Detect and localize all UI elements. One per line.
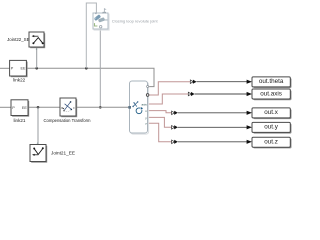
block Compensation Transform xyxy=(60,98,77,117)
svg-text:Joint21_EE: Joint21_EE xyxy=(51,151,75,156)
wire Compensation Transform to converter block left port xyxy=(76,106,128,108)
wire y signal xyxy=(178,126,247,128)
node junction joint bottom on link21 net xyxy=(99,106,102,109)
wire theta physical xyxy=(148,82,190,95)
block out.x xyxy=(252,108,292,119)
block Joint21_EE sensor xyxy=(30,141,47,163)
block out.y xyxy=(252,122,292,133)
block link22 xyxy=(10,60,28,77)
converter arrow z xyxy=(172,140,178,144)
wire left edge to link22 xyxy=(0,67,10,69)
wire revolute joint bottom drop xyxy=(99,29,101,107)
wire axis physical xyxy=(148,94,188,104)
block rotation converter U1 xyxy=(128,81,149,134)
node junction joint loop xyxy=(85,67,88,70)
block out.z xyxy=(252,137,292,148)
ground anchor above joint xyxy=(102,8,106,13)
svg-text:link22: link22 xyxy=(13,78,25,83)
wire x physical xyxy=(148,111,172,113)
wire drop to Joint21_EE xyxy=(37,107,39,144)
svg-text:out.x: out.x xyxy=(264,109,279,116)
arrowhead into out.axis xyxy=(247,92,252,96)
wire revolute joint top loop xyxy=(86,3,96,68)
converter arrow axis xyxy=(188,92,194,96)
arrowhead into out.y xyxy=(247,125,252,129)
svg-text:Joint22_SE: Joint22_SE xyxy=(7,37,30,42)
svg-text:P: P xyxy=(11,67,14,71)
converter arrow theta xyxy=(190,80,196,84)
wire sensor Joint22_SE drop xyxy=(36,47,38,68)
node junction sensor drop xyxy=(35,67,38,70)
converter arrow y xyxy=(172,125,178,129)
wire axis signal xyxy=(195,93,247,95)
svg-text:F: F xyxy=(73,106,75,110)
svg-text:Compensation Transform: Compensation Transform xyxy=(43,118,91,123)
node junction Joint21_EE drop xyxy=(37,106,40,109)
svg-text:link21: link21 xyxy=(13,118,25,123)
wire x signal xyxy=(178,112,247,114)
wire left edge to link21 xyxy=(0,106,11,108)
converter arrow x xyxy=(172,111,178,115)
svg-text:axis: axis xyxy=(141,102,147,106)
arrowhead into out.z xyxy=(247,140,252,144)
svg-text:B: B xyxy=(61,106,63,110)
svg-text:out.theta: out.theta xyxy=(259,78,284,85)
block closing loop revolute joint xyxy=(93,12,109,30)
svg-text:out.y: out.y xyxy=(264,124,279,131)
svg-text:out.axis: out.axis xyxy=(260,90,282,97)
wire z signal xyxy=(178,141,247,143)
wire link22 EE to node then to converter block right port xyxy=(27,68,154,86)
wire y physical xyxy=(148,117,172,127)
wire theta signal xyxy=(197,81,247,83)
block Joint22_SE sensor xyxy=(29,32,45,51)
svg-text:P: P xyxy=(12,106,15,110)
arrowhead into out.x xyxy=(247,111,252,115)
block out.theta xyxy=(252,77,292,88)
svg-text:Closing loop revolute joint: Closing loop revolute joint xyxy=(112,19,159,24)
svg-text:EE: EE xyxy=(20,67,26,71)
arrowhead into out.theta xyxy=(247,80,252,84)
block link21 xyxy=(11,100,29,117)
svg-text:out.z: out.z xyxy=(264,139,278,146)
block out.axis xyxy=(252,89,292,100)
wire link21 EE to Compensation Transform xyxy=(28,106,60,108)
wire z physical xyxy=(148,123,172,142)
svg-text:EE: EE xyxy=(22,106,28,110)
